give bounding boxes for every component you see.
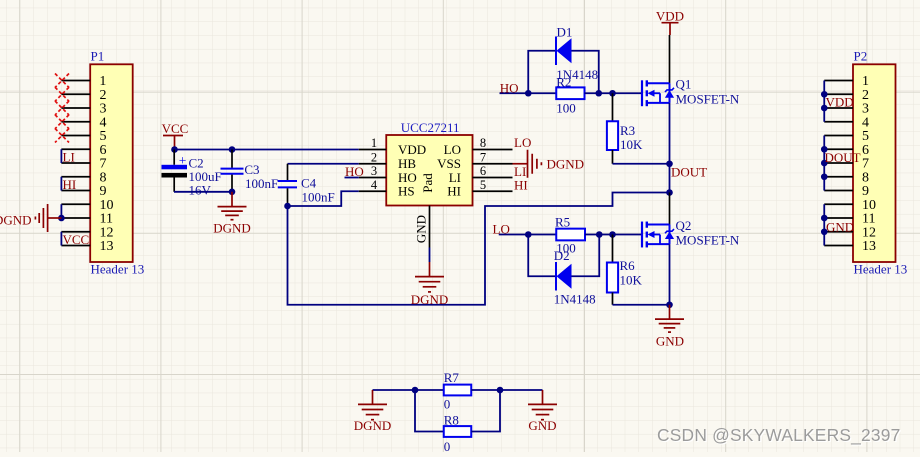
capacitor C2 (polarized 100uF 16V) <box>162 150 222 198</box>
junction P2 pin 12 <box>821 228 828 235</box>
wire joining P2 pins 5-9 <box>823 136 825 191</box>
capacitor C3 (100nF) <box>221 150 279 192</box>
svg-text:R7: R7 <box>444 370 460 385</box>
svg-text:VDD: VDD <box>826 95 854 110</box>
svg-text:1: 1 <box>99 74 106 89</box>
svg-text:0: 0 <box>444 397 451 412</box>
wire HS net long route to switch node <box>288 193 670 305</box>
svg-text:Q1: Q1 <box>676 77 692 92</box>
svg-text:R2: R2 <box>556 75 571 90</box>
svg-text:MOSFET-N: MOSFET-N <box>676 233 740 248</box>
svg-text:Header 13: Header 13 <box>91 262 145 277</box>
resistor R3 10K <box>607 93 643 164</box>
ground DGND below UCC pad <box>415 262 444 292</box>
svg-text:6: 6 <box>100 143 107 158</box>
svg-text:HI: HI <box>447 184 461 199</box>
svg-text:11: 11 <box>862 212 875 227</box>
svg-text:0: 0 <box>444 439 451 452</box>
wire R6 bottom to Q2 source <box>613 304 670 306</box>
svg-text:10K: 10K <box>620 137 643 152</box>
header P1 pins 1-13 <box>61 81 90 246</box>
svg-text:LO: LO <box>444 142 461 157</box>
wire switch node to Q2 drain <box>669 193 671 225</box>
junction R7/R8 right <box>497 387 504 394</box>
svg-text:HB: HB <box>398 156 416 171</box>
wire R2 to gate node <box>585 92 642 94</box>
net label HO at UCC pin 3 <box>345 177 359 179</box>
junction P2 pin 2 <box>821 91 828 98</box>
svg-text:C4: C4 <box>301 176 317 191</box>
junction R7/R8 left <box>412 387 419 394</box>
svg-text:R5: R5 <box>555 214 570 229</box>
svg-text:7: 7 <box>480 150 486 164</box>
wire Q1 source to DOUT <box>669 103 671 193</box>
UCC27211 pin numbers <box>371 136 486 192</box>
wire joining P2 pins 10-13 <box>823 204 825 245</box>
svg-text:GND: GND <box>826 220 854 235</box>
svg-text:UCC27211: UCC27211 <box>401 120 460 135</box>
svg-text:+: + <box>179 153 187 168</box>
svg-text:LI: LI <box>63 150 75 165</box>
svg-text:7: 7 <box>100 157 107 172</box>
svg-text:DGND: DGND <box>213 221 251 236</box>
svg-text:2: 2 <box>862 88 869 103</box>
svg-text:100nF: 100nF <box>302 190 335 205</box>
wire R3 bottom to DOUT node <box>613 163 670 165</box>
svg-text:R6: R6 <box>620 258 636 273</box>
svg-text:1: 1 <box>371 136 377 150</box>
junction P2 pin 8 <box>821 173 828 180</box>
wire Q2 source to GND <box>669 244 671 305</box>
ground DGND bottom left <box>358 390 387 420</box>
junction P2 pin 7 <box>821 160 828 167</box>
wire C4 bottom to HS pin (UCC pin 4) <box>288 191 359 206</box>
junction at C3 top <box>229 146 236 153</box>
svg-text:DGND: DGND <box>411 292 449 307</box>
svg-text:2: 2 <box>100 88 107 103</box>
svg-text:8: 8 <box>100 170 107 185</box>
wire R5 to Q2 gate <box>585 234 642 236</box>
junction R6 top / Q2 gate <box>609 231 616 238</box>
wire C2 bottom to C3 bottom <box>174 191 232 193</box>
svg-text:MOSFET-N: MOSFET-N <box>676 91 740 106</box>
svg-text:VCC: VCC <box>63 232 90 247</box>
junction P2 pin 6 <box>821 146 828 153</box>
svg-text:VDD: VDD <box>656 9 684 24</box>
svg-text:LO: LO <box>493 222 510 237</box>
svg-text:LI: LI <box>514 164 526 179</box>
svg-text:HS: HS <box>398 184 415 199</box>
junction at C3 bottom <box>229 189 236 196</box>
svg-text:R8: R8 <box>444 412 459 427</box>
junction R3 top / Q1 gate <box>609 90 616 97</box>
svg-text:13: 13 <box>862 239 876 254</box>
svg-text:3: 3 <box>100 102 107 117</box>
svg-text:P1: P1 <box>91 49 105 64</box>
svg-text:3: 3 <box>371 164 377 178</box>
svg-text:8: 8 <box>862 170 869 185</box>
svg-text:DGND: DGND <box>0 213 32 228</box>
svg-text:GND: GND <box>656 334 684 349</box>
junction at VCC/C2 <box>171 146 178 153</box>
wire D2 loop right <box>572 235 600 277</box>
junction P2 pin 11 <box>821 215 828 222</box>
svg-text:6: 6 <box>480 164 486 178</box>
UCC27211 GND pad pin <box>429 206 431 248</box>
svg-text:HO: HO <box>345 164 364 179</box>
wire joining P1 pins 6-7 <box>60 149 62 163</box>
svg-text:6: 6 <box>862 143 869 158</box>
power ground DGND at UCC pin 7 (sideways) <box>513 150 542 178</box>
junction Q2 source / R6 <box>666 301 673 308</box>
svg-text:8: 8 <box>480 136 486 150</box>
svg-text:5: 5 <box>100 129 107 144</box>
svg-text:10K: 10K <box>620 273 643 288</box>
wire pad pin to ground <box>429 248 431 263</box>
header P1 pin numbers <box>99 74 113 254</box>
wire R8 loop right <box>471 390 500 432</box>
svg-text:VSS: VSS <box>437 156 461 171</box>
no-ERC marks on P1 pins 1-5 <box>55 74 69 143</box>
power port VCC <box>162 121 189 150</box>
svg-text:Q2: Q2 <box>676 218 692 233</box>
svg-text:DGND: DGND <box>547 157 585 172</box>
svg-text:D1: D1 <box>557 25 573 40</box>
svg-text:4: 4 <box>862 115 869 130</box>
wire D1 loop right <box>572 51 599 94</box>
svg-text:HO: HO <box>500 80 519 95</box>
wire D1 loop left <box>528 51 556 94</box>
ground GND bottom right <box>528 390 557 420</box>
junction HO/D1 <box>525 90 532 97</box>
wire R7 right to GND <box>471 389 542 391</box>
diode D1 1N4148 <box>556 25 598 82</box>
svg-text:9: 9 <box>100 184 107 199</box>
junction P2 pin 3 <box>821 105 828 112</box>
svg-text:LO: LO <box>514 135 531 150</box>
junction at C4 bottom <box>284 203 291 210</box>
UCC27211 pin names <box>398 142 461 199</box>
junction on P1 pin 11 <box>58 215 65 222</box>
junction HS joins switch node <box>666 189 673 196</box>
transistor Q2 MOSFET-N <box>642 218 740 248</box>
svg-text:9: 9 <box>862 184 869 199</box>
svg-text:11: 11 <box>100 212 113 227</box>
wire joining P1 pins 8-9 <box>60 177 62 191</box>
wire VCC rail to UCC pin 1 <box>175 149 359 151</box>
svg-text:GND: GND <box>413 215 428 243</box>
wire R8 loop left <box>415 390 444 432</box>
svg-text:Header 13: Header 13 <box>854 262 908 277</box>
svg-text:7: 7 <box>862 157 869 172</box>
power ground DGND at P1 pin 11 (sideways) <box>35 204 61 232</box>
ground GND below Q2 <box>655 305 684 332</box>
svg-text:DOUT: DOUT <box>671 165 707 180</box>
svg-text:VCC: VCC <box>162 121 189 136</box>
header P2 pins 1-13 <box>824 81 853 246</box>
junction D1 right <box>595 90 602 97</box>
resistor R7 0 <box>444 370 472 412</box>
svg-text:HI: HI <box>63 177 77 192</box>
power port VDD <box>656 9 684 36</box>
svg-text:HI: HI <box>514 178 528 193</box>
wire joining P2 pins 1-4 <box>823 81 825 122</box>
svg-text:4: 4 <box>100 115 107 130</box>
svg-text:10: 10 <box>100 198 114 213</box>
wire DGND to R7 left node <box>373 389 444 391</box>
svg-text:12: 12 <box>100 225 114 240</box>
junction DOUT <box>666 160 673 167</box>
svg-text:2: 2 <box>371 150 377 164</box>
ground DGND below C3 <box>218 192 247 220</box>
resistor R5 100 <box>555 214 585 255</box>
svg-text:GND: GND <box>528 418 556 433</box>
svg-text:1: 1 <box>862 74 869 89</box>
wire LO net <box>499 234 557 236</box>
header P1 body <box>90 49 144 277</box>
svg-text:10: 10 <box>862 198 876 213</box>
svg-text:100nF: 100nF <box>245 176 278 191</box>
op-amp/driver U1 UCC27211 body <box>386 120 472 206</box>
svg-text:13: 13 <box>100 239 114 254</box>
svg-text:12: 12 <box>862 225 876 240</box>
svg-text:100: 100 <box>556 241 576 256</box>
wire HB (UCC pin 2) to C4 top <box>288 163 359 165</box>
svg-text:CSDN @SKYWALKERS_2397: CSDN @SKYWALKERS_2397 <box>657 425 901 445</box>
svg-text:Pad: Pad <box>420 173 435 193</box>
resistor R2 100 <box>556 75 584 116</box>
UCC27211 right pins 8,7,6,5 <box>473 150 513 192</box>
svg-text:1N4148: 1N4148 <box>554 292 596 307</box>
svg-text:5: 5 <box>480 178 486 192</box>
svg-text:5: 5 <box>862 129 869 144</box>
wire joining P1 pins 12-13 <box>60 232 62 246</box>
junction LO/D2 <box>525 231 532 238</box>
svg-text:R3: R3 <box>620 123 635 138</box>
wire D2 loop left <box>528 235 556 277</box>
resistor R6 10K <box>607 235 643 305</box>
svg-text:16V: 16V <box>189 183 212 198</box>
svg-text:100: 100 <box>556 101 576 116</box>
svg-text:VDD: VDD <box>398 142 426 157</box>
header P2 body <box>853 49 907 277</box>
resistor R8 0 <box>444 412 472 453</box>
svg-text:P2: P2 <box>854 49 868 64</box>
svg-text:DGND: DGND <box>354 418 392 433</box>
header P2 pin numbers <box>862 74 876 254</box>
wire joining P1 pins 10-11 <box>60 204 62 218</box>
svg-text:DOUT: DOUT <box>825 150 861 165</box>
wire HO net <box>500 92 557 94</box>
UCC27211 left pins 1-4 <box>359 150 387 192</box>
junction D2 right <box>596 231 603 238</box>
diode D2 1N4148 <box>554 248 596 307</box>
wire VDD to Q1 drain <box>669 35 671 83</box>
svg-text:3: 3 <box>862 102 869 117</box>
capacitor C4 (100nF bootstrap) <box>278 164 335 206</box>
transistor Q1 MOSFET-N <box>642 77 740 107</box>
svg-text:C3: C3 <box>244 162 259 177</box>
svg-text:4: 4 <box>371 178 378 192</box>
